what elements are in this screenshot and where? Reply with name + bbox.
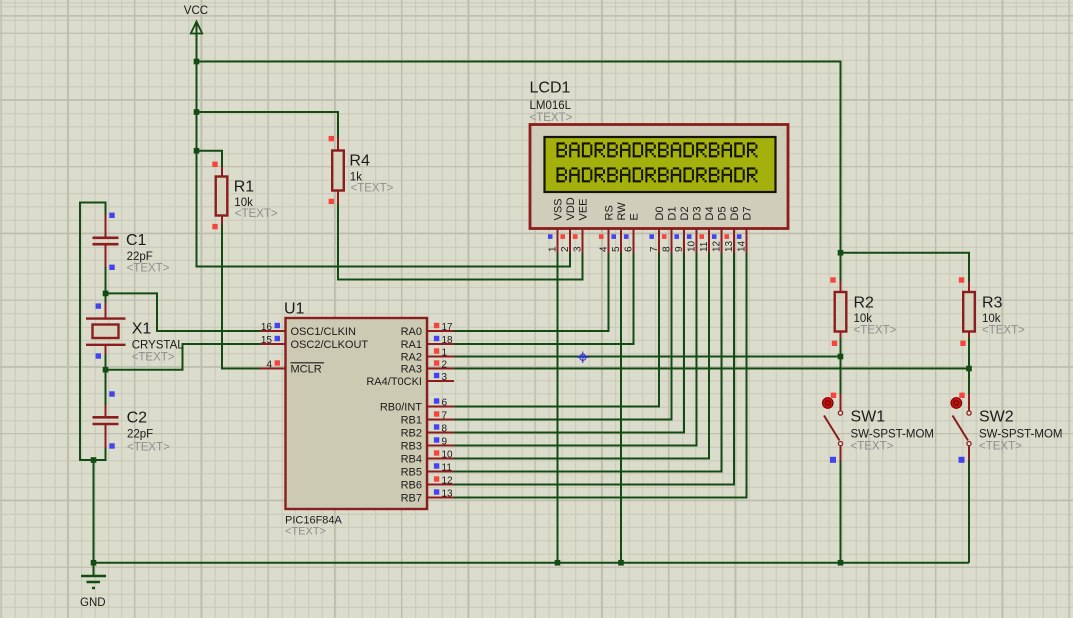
svg-text:<TEXT>: <TEXT> (132, 351, 175, 363)
svg-text:RA0: RA0 (401, 326, 422, 338)
svg-text:6: 6 (442, 398, 448, 409)
svg-text:<TEXT>: <TEXT> (127, 262, 170, 274)
svg-text:<TEXT>: <TEXT> (285, 526, 326, 538)
svg-text:RS: RS (604, 205, 616, 220)
svg-text:<TEXT>: <TEXT> (982, 325, 1025, 337)
svg-text:RB7: RB7 (401, 493, 422, 505)
svg-text:<TEXT>: <TEXT> (979, 441, 1022, 453)
svg-text:X1: X1 (132, 320, 152, 337)
svg-text:2: 2 (442, 360, 448, 371)
svg-text:OSC2/CLKOUT: OSC2/CLKOUT (291, 339, 369, 351)
svg-text:VDD: VDD (565, 197, 577, 220)
svg-text:R3: R3 (982, 295, 1003, 312)
svg-text:D3: D3 (692, 206, 704, 220)
svg-text:VSS: VSS (553, 198, 565, 220)
svg-text:C1: C1 (126, 232, 147, 249)
svg-text:10k: 10k (982, 313, 1001, 325)
svg-text:1k: 1k (350, 171, 362, 183)
svg-text:C2: C2 (127, 409, 148, 426)
svg-text:11: 11 (699, 241, 710, 252)
svg-text:12: 12 (442, 476, 454, 487)
svg-text:6: 6 (624, 246, 635, 252)
svg-text:E: E (629, 213, 641, 220)
svg-text:5: 5 (611, 246, 622, 252)
svg-text:<TEXT>: <TEXT> (235, 208, 278, 220)
svg-text:R2: R2 (854, 295, 875, 312)
svg-text:4: 4 (599, 246, 610, 252)
svg-text:MCLR: MCLR (291, 364, 322, 376)
svg-text:D7: D7 (742, 206, 754, 220)
svg-text:RB2: RB2 (401, 428, 422, 440)
svg-text:9: 9 (674, 246, 685, 252)
svg-text:OSC1/CLKIN: OSC1/CLKIN (291, 326, 356, 338)
svg-text:13: 13 (724, 240, 735, 252)
svg-text:U1: U1 (284, 301, 305, 318)
svg-text:VEE: VEE (578, 198, 590, 220)
svg-text:RB6: RB6 (401, 480, 422, 492)
svg-text:18: 18 (442, 335, 454, 346)
svg-text:1: 1 (548, 246, 559, 252)
svg-text:16: 16 (261, 322, 273, 333)
svg-text:2: 2 (560, 246, 571, 252)
svg-text:17: 17 (442, 322, 454, 333)
svg-text:7: 7 (649, 246, 660, 252)
svg-text:RW: RW (616, 202, 628, 221)
svg-text:22pF: 22pF (127, 251, 153, 263)
svg-text:14: 14 (737, 240, 748, 252)
svg-text:9: 9 (442, 437, 448, 448)
svg-text:<TEXT>: <TEXT> (127, 441, 170, 453)
svg-text:LM016L: LM016L (530, 100, 572, 112)
svg-text:RB0/INT: RB0/INT (380, 402, 422, 414)
svg-text:8: 8 (442, 424, 448, 435)
svg-text:RB1: RB1 (401, 415, 422, 427)
svg-text:RB4: RB4 (401, 454, 422, 466)
svg-text:SW-SPST-MOM: SW-SPST-MOM (979, 429, 1062, 441)
svg-text:10k: 10k (854, 313, 873, 325)
svg-text:7: 7 (442, 411, 448, 422)
svg-text:R1: R1 (234, 179, 255, 196)
svg-text:SW2: SW2 (979, 409, 1014, 426)
svg-text:3: 3 (442, 372, 448, 383)
svg-text:3: 3 (573, 246, 584, 252)
svg-text:SW-SPST-MOM: SW-SPST-MOM (851, 429, 934, 441)
svg-text:15: 15 (261, 335, 273, 346)
svg-text:RA3: RA3 (401, 364, 422, 376)
svg-text:1: 1 (442, 348, 448, 359)
svg-text:<TEXT>: <TEXT> (351, 183, 394, 195)
svg-text:12: 12 (712, 240, 723, 252)
svg-text:R4: R4 (349, 153, 370, 170)
svg-text:VCC: VCC (184, 5, 208, 17)
svg-text:10: 10 (442, 450, 454, 461)
svg-text:D5: D5 (717, 206, 729, 220)
svg-text:10: 10 (687, 240, 698, 252)
svg-text:GND: GND (80, 597, 106, 609)
svg-text:D1: D1 (667, 206, 679, 220)
svg-text:RB5: RB5 (401, 467, 422, 479)
svg-text:8: 8 (662, 246, 673, 252)
svg-text:<TEXT>: <TEXT> (530, 112, 573, 124)
svg-text:13: 13 (442, 489, 454, 500)
svg-text:CRYSTAL: CRYSTAL (132, 339, 185, 351)
svg-text:4: 4 (266, 360, 272, 371)
svg-text:<TEXT>: <TEXT> (854, 325, 897, 337)
svg-text:RA2: RA2 (401, 352, 422, 364)
svg-text:D6: D6 (729, 206, 741, 220)
svg-text:RA4/T0CKI: RA4/T0CKI (366, 376, 422, 388)
svg-text:SW1: SW1 (851, 409, 886, 426)
svg-text:D0: D0 (654, 206, 666, 220)
svg-text:22pF: 22pF (127, 428, 153, 440)
svg-text:<TEXT>: <TEXT> (851, 441, 894, 453)
svg-text:RA1: RA1 (401, 339, 422, 351)
svg-text:RB3: RB3 (401, 441, 422, 453)
svg-text:D2: D2 (679, 206, 691, 220)
svg-text:11: 11 (442, 463, 453, 474)
svg-text:D4: D4 (704, 206, 716, 220)
svg-text:LCD1: LCD1 (530, 80, 571, 97)
